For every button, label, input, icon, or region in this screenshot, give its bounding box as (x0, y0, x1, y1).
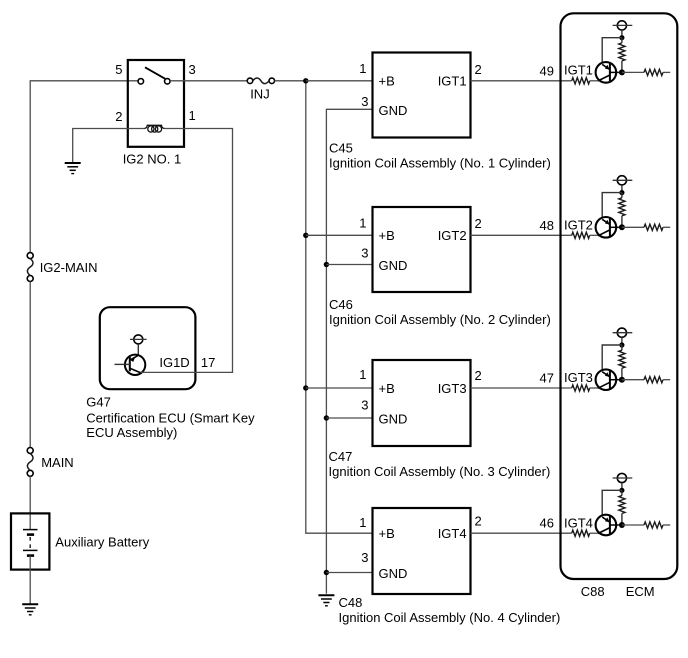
ignition coil assembly C45 box (No. 1 Cylinder) (373, 53, 471, 138)
resistor sense (IGT1) (644, 69, 670, 75)
svg-text:IGT3: IGT3 (564, 370, 593, 385)
node pull-up top (IGT4) (619, 488, 624, 493)
node transistor base junction (IGT1) (619, 69, 625, 75)
svg-text:C45: C45 (329, 141, 353, 156)
label Certification ECU line 2 (86, 425, 177, 440)
pin 3 (C46) (361, 246, 368, 261)
resistor IGT2 input (572, 232, 599, 238)
svg-text:2: 2 (475, 216, 482, 231)
svg-text:1: 1 (359, 367, 366, 382)
wire IGT4 to ECM (471, 532, 572, 534)
wire relay pin 2 to ground (73, 129, 128, 164)
relay switch blade (145, 67, 165, 79)
label IGT4 output (C48) (438, 526, 467, 541)
node GND bus coil 4 tee (324, 570, 329, 575)
label IG1D (159, 355, 189, 370)
pin 1 (C48) (359, 515, 366, 530)
svg-text:5: 5 (115, 62, 122, 77)
power supply node (ECM IGT1) (613, 21, 633, 30)
node pull-up top (IGT3) (619, 342, 624, 347)
pin 46 (540, 516, 554, 531)
svg-text:Auxiliary Battery: Auxiliary Battery (55, 534, 149, 549)
label ignition coil assembly No. 4 (339, 610, 561, 625)
wire IGT2 to ECM (471, 234, 572, 236)
resistor IGT3 input (572, 385, 599, 391)
node transistor base junction (IGT3) (619, 377, 625, 383)
wire INJ to +B bus junction (275, 80, 306, 82)
pin 3 (C45) (361, 94, 368, 109)
svg-text:IGT1: IGT1 (438, 74, 467, 89)
label ignition coil assembly No. 2 (329, 312, 551, 327)
label C48 (339, 595, 363, 610)
battery positive plate (23, 529, 38, 531)
power supply node (ECM IGT4) (613, 473, 633, 482)
wire IGT1 to ECM (471, 80, 572, 82)
wire main battery feed (top horizontal, battery + to relay pin 5) (30, 80, 138, 82)
wire GND bus to coil 3 (326, 417, 372, 419)
svg-text:3: 3 (361, 246, 368, 261)
ignition coil assembly C48 box (No. 4 Cylinder) (373, 508, 471, 594)
label IGT2 output (C46) (438, 228, 467, 243)
label C47 (329, 449, 353, 464)
label IGT3 output (C47) (438, 381, 467, 396)
svg-text:+B: +B (379, 381, 395, 396)
pin 2 (C46) (475, 216, 482, 231)
svg-text:GND: GND (379, 412, 408, 427)
wire GND bus to coil 4 (326, 572, 372, 574)
wire base node to sense resistor (IGT3) (622, 379, 644, 381)
wire IG1D output to pin 17 (141, 371, 197, 373)
svg-text:IGT4: IGT4 (564, 515, 593, 530)
wire power to pull-up (IGT2) (621, 185, 623, 193)
wire GND bus vertical (326, 109, 372, 593)
label G47 (86, 395, 111, 410)
power node circle (G47) (130, 335, 147, 344)
svg-text:48: 48 (540, 218, 554, 233)
svg-text:3: 3 (361, 550, 368, 565)
label +B (C48) (379, 526, 395, 541)
svg-text:Certification ECU (Smart Key: Certification ECU (Smart Key (86, 411, 255, 426)
svg-text:GND: GND (379, 258, 408, 273)
pin 49 (540, 63, 554, 78)
resistor sense (IGT3) (644, 377, 670, 383)
ignition coil assembly C46 box (No. 2 Cylinder) (373, 207, 471, 292)
pin 2 (C45) (475, 62, 482, 77)
resistor pull-up (IGT2) (619, 193, 625, 228)
svg-text:IGT1: IGT1 (564, 63, 593, 78)
fusible link IG2-MAIN (27, 253, 33, 282)
wire power node to transistor (137, 344, 139, 356)
label IGT1 (ECM) (564, 63, 593, 78)
wire (29, 476, 31, 529)
label IG2-MAIN (40, 260, 98, 275)
svg-text:C48: C48 (339, 595, 363, 610)
wire collector feed (IGT3) (602, 345, 622, 372)
svg-text:2: 2 (475, 368, 482, 383)
wire power to pull-up (IGT1) (621, 30, 623, 38)
battery positive plate 2 (23, 549, 38, 551)
fusible link MAIN (27, 448, 33, 477)
svg-text:2: 2 (475, 62, 482, 77)
wire collector feed (IGT2) (602, 193, 622, 220)
svg-text:47: 47 (540, 371, 554, 386)
resistor pull-up (IGT4) (619, 490, 625, 525)
pin 1 (C45) (359, 61, 366, 76)
pin 1 (C47) (359, 367, 366, 382)
transistor IGT4 driver (596, 515, 619, 536)
wire relay pin 1 to certification ECU pin 17 (184, 129, 233, 373)
battery cell dashes (29, 537, 31, 548)
battery BAT (Auxiliary Battery) box (11, 513, 49, 569)
wire +B bus to coil 2 (306, 234, 373, 236)
power supply node (ECM IGT3) (613, 328, 633, 337)
svg-text:GND: GND (379, 103, 408, 118)
svg-text:IGT2: IGT2 (438, 228, 467, 243)
wire IGT3 to ECM (471, 387, 572, 389)
svg-text:+B: +B (379, 228, 395, 243)
node pull-up top (IGT2) (619, 190, 624, 195)
resistor pull-up (IGT3) (619, 345, 625, 380)
wire base node to sense resistor (IGT4) (622, 524, 644, 526)
wire +B bus to coil 1 (306, 80, 373, 82)
node GND bus coil 3 tee (324, 415, 329, 420)
label GND (C46) (379, 258, 408, 273)
ground C48 (ignition coil ground) (318, 595, 334, 606)
svg-text:2: 2 (115, 109, 122, 124)
svg-text:2: 2 (475, 514, 482, 529)
wire base node to sense resistor (IGT1) (622, 71, 644, 73)
svg-text:3: 3 (189, 62, 196, 77)
svg-text:3: 3 (361, 94, 368, 109)
wire GND bus to coil 2 (326, 264, 372, 266)
relay coil (128, 125, 184, 132)
wire relay pin 3 to INJ (170, 80, 247, 82)
node pull-up top (IGT1) (619, 35, 624, 40)
svg-text:G47: G47 (86, 395, 111, 410)
pin 3 (C48) (361, 550, 368, 565)
wire collector feed (IGT1) (602, 38, 622, 65)
svg-text:INJ: INJ (250, 87, 270, 102)
label +B (C45) (379, 74, 395, 89)
pin 3 (C47) (361, 398, 368, 413)
svg-text:Ignition Coil Assembly (No. 2: Ignition Coil Assembly (No. 2 Cylinder) (329, 312, 551, 327)
svg-text:3: 3 (361, 398, 368, 413)
svg-text:GND: GND (379, 566, 408, 581)
node +B bus coil 2 tee (303, 233, 308, 238)
svg-text:Ignition Coil Assembly (No. 4: Ignition Coil Assembly (No. 4 Cylinder) (339, 610, 561, 625)
ECM box C88 (561, 13, 678, 579)
label C45 (329, 141, 353, 156)
resistor sense (IGT2) (644, 224, 670, 230)
node GND bus coil 2 tee (324, 262, 329, 267)
wire power to pull-up (IGT4) (621, 483, 623, 491)
relay IG2 NO. 1 box (128, 60, 184, 147)
relay switch contact pin 5 (138, 79, 144, 85)
node +B bus coil 3 tee (303, 385, 308, 390)
wire left vertical (battery + bus) (29, 80, 31, 252)
svg-text:1: 1 (359, 515, 366, 530)
label Auxiliary Battery (55, 534, 149, 549)
svg-text:+B: +B (379, 74, 395, 89)
battery negative plate (27, 533, 34, 536)
svg-text:1: 1 (359, 61, 366, 76)
pin 48 (540, 218, 554, 233)
pin 47 (540, 371, 554, 386)
pin 1 (189, 108, 196, 123)
label ECM (626, 584, 655, 599)
pin 1 (C46) (359, 216, 366, 231)
pin 2 (C48) (475, 514, 482, 529)
svg-text:1: 1 (359, 216, 366, 231)
fuse INJ (247, 78, 274, 84)
pin 5 (115, 62, 122, 77)
label MAIN (41, 455, 73, 470)
svg-text:ECU Assembly): ECU Assembly) (86, 425, 177, 440)
pin 2 (C47) (475, 368, 482, 383)
resistor IGT1 input (572, 78, 599, 84)
node transistor base junction (IGT4) (619, 522, 625, 528)
label GND (C45) (379, 103, 408, 118)
label +B (C47) (379, 381, 395, 396)
label C46 (329, 297, 353, 312)
resistor IGT4 input (572, 530, 599, 536)
svg-text:IG2-MAIN: IG2-MAIN (40, 260, 98, 275)
resistor sense (IGT4) (644, 522, 670, 528)
label IGT4 (ECM) (564, 515, 593, 530)
node +B bus / INJ junction (303, 78, 308, 83)
label IGT1 output (C45) (438, 74, 467, 89)
label ignition coil assembly No. 3 (329, 464, 551, 479)
transistor (G47 IG1D driver) (125, 355, 145, 375)
label ignition coil assembly No. 1 (329, 156, 551, 171)
wire +B bus to coil 3 (306, 387, 373, 389)
svg-text:+B: +B (379, 526, 395, 541)
label +B (C46) (379, 228, 395, 243)
ground (relay coil) (65, 163, 81, 174)
svg-text:C47: C47 (329, 449, 353, 464)
svg-text:MAIN: MAIN (41, 455, 73, 470)
wire base node to sense resistor (IGT2) (622, 226, 644, 228)
svg-text:Ignition Coil Assembly (No. 3: Ignition Coil Assembly (No. 3 Cylinder) (329, 464, 551, 479)
wire +B bus vertical (306, 81, 373, 533)
label IG2 NO. 1 (123, 152, 182, 167)
label INJ (250, 87, 270, 102)
label GND (C47) (379, 412, 408, 427)
ground (battery) (22, 604, 38, 615)
label C88 (581, 584, 605, 599)
svg-text:C88: C88 (581, 584, 605, 599)
wire power to pull-up (IGT3) (621, 337, 623, 345)
svg-text:1: 1 (189, 108, 196, 123)
wire battery to ground (29, 556, 31, 605)
label IGT2 (ECM) (564, 218, 593, 233)
transistor IGT2 driver (596, 217, 619, 238)
svg-text:49: 49 (540, 63, 554, 78)
svg-text:17: 17 (201, 355, 215, 370)
svg-text:IGT2: IGT2 (564, 218, 593, 233)
node transistor base junction (IGT2) (619, 224, 625, 230)
battery negative plate 2 (27, 554, 34, 557)
relay switch contact pin 3 (165, 79, 171, 85)
pin 3 (189, 62, 196, 77)
label GND (C48) (379, 566, 408, 581)
label IGT3 (ECM) (564, 370, 593, 385)
wire transistor base (G47) (115, 363, 130, 365)
pin 17 (201, 355, 215, 370)
wire collector feed (IGT4) (602, 490, 622, 517)
svg-text:IGT4: IGT4 (438, 526, 467, 541)
svg-text:IG2 NO. 1: IG2 NO. 1 (123, 152, 182, 167)
resistor pull-up (IGT1) (619, 38, 625, 73)
svg-text:IGT3: IGT3 (438, 381, 467, 396)
label Certification ECU line 1 (86, 411, 255, 426)
certification ECU G47 box (100, 307, 196, 389)
svg-text:Ignition Coil Assembly (No. 1: Ignition Coil Assembly (No. 1 Cylinder) (329, 156, 551, 171)
ignition coil assembly C47 box (No. 3 Cylinder) (373, 360, 471, 446)
wire (29, 282, 31, 448)
svg-text:46: 46 (540, 516, 554, 531)
svg-text:C46: C46 (329, 297, 353, 312)
svg-text:ECM: ECM (626, 584, 655, 599)
transistor IGT3 driver (596, 369, 619, 390)
transistor IGT1 driver (596, 62, 619, 83)
pin 2 (115, 109, 122, 124)
svg-text:IG1D: IG1D (159, 355, 189, 370)
power supply node (ECM IGT2) (613, 176, 633, 185)
